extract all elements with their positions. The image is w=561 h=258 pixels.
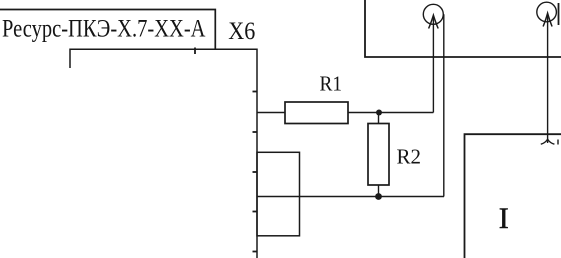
wire R2 bottom to node 2 xyxy=(378,185,380,197)
pin tick 2 xyxy=(253,131,258,133)
small dash at right edge near load box xyxy=(557,140,559,145)
current terminal circle left xyxy=(423,4,443,24)
svg-text:R1: R1 xyxy=(320,72,343,96)
wire node1 down to R2 xyxy=(378,113,380,124)
connector X6 label xyxy=(228,16,255,45)
wire with current arrow up into right circle xyxy=(543,13,552,143)
device label text Ресурс-ПКЭ-Х.7-ХХ-А xyxy=(2,15,206,42)
current terminal circle right xyxy=(537,2,557,22)
svg-text:Х6: Х6 xyxy=(228,16,255,45)
tangent wire from left circle right side down to bottom wire xyxy=(443,14,445,196)
pin tick on horizontal segment xyxy=(194,48,196,55)
svg-text:I: I xyxy=(499,202,509,235)
pin tick 5 xyxy=(253,251,258,253)
curved arrowhead at load box entry xyxy=(541,139,555,144)
bottom horizontal wire from X6 through node 2 to right riser xyxy=(257,196,444,198)
svg-text:Ресурс-ПКЭ-Х.7-ХХ-А: Ресурс-ПКЭ-Х.7-ХХ-А xyxy=(2,15,206,42)
resistor R1 xyxy=(285,102,348,124)
load box I xyxy=(465,134,561,258)
pin tick 3 xyxy=(253,171,258,173)
device label box xyxy=(0,10,215,50)
wire from X6 to R1 xyxy=(257,112,285,114)
connector X6 bracket line with stub xyxy=(70,49,257,258)
instrument box top right xyxy=(365,0,561,57)
pin tick 1 xyxy=(253,91,258,93)
node junction 1 xyxy=(376,110,382,116)
node junction 2 xyxy=(375,193,382,200)
wire from R1 to node 1 and up-arrow branch corner xyxy=(348,112,433,114)
terminal block boxes on X6 line xyxy=(257,152,300,236)
pin tick 4 xyxy=(253,211,258,213)
svg-text:R2: R2 xyxy=(397,145,422,169)
wire with current arrow up into left circle xyxy=(429,15,439,112)
short bar right of right circle xyxy=(558,3,560,25)
resistor R2 xyxy=(368,124,389,186)
